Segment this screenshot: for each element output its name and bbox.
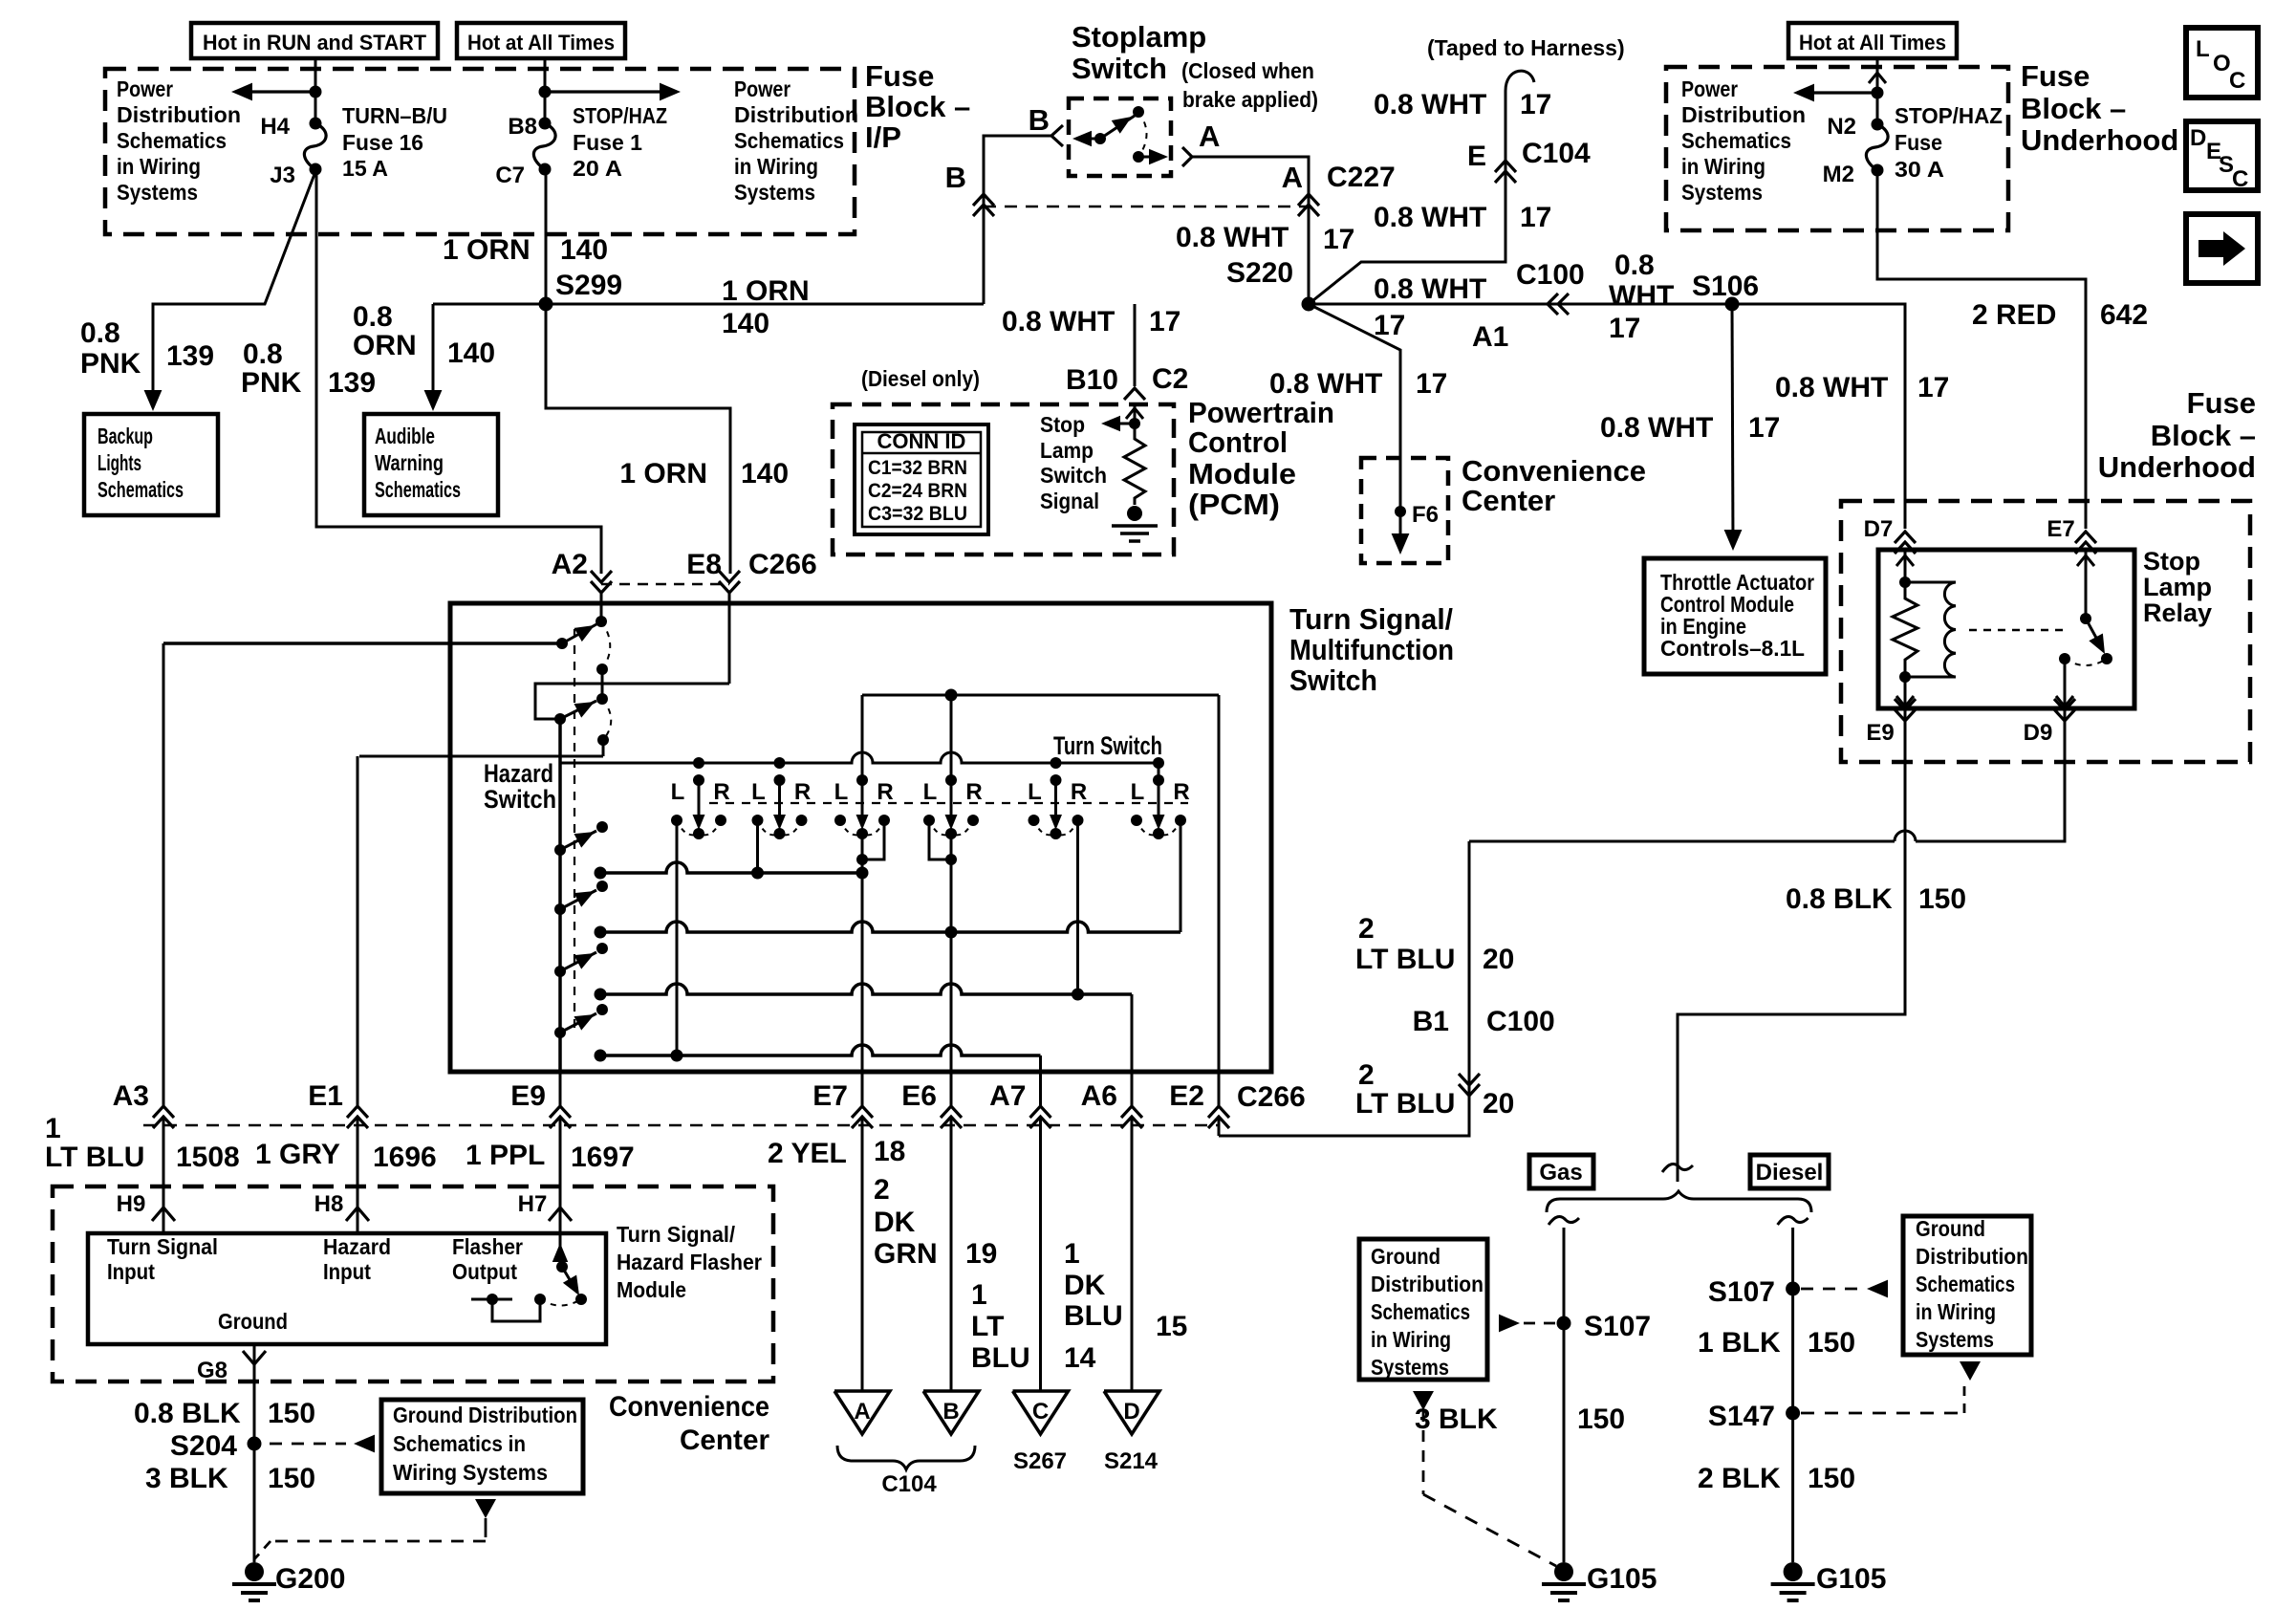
svg-text:A2: A2 (552, 549, 588, 580)
dashed box: Fuse Block I/P (105, 69, 855, 234)
svg-text:15: 15 (1156, 1311, 1187, 1342)
junction rail E6 (945, 689, 958, 702)
svg-text:Warning: Warning (375, 450, 444, 475)
svg-text:Stoplamp: Stoplamp (1072, 20, 1206, 54)
row C wire (600, 984, 1132, 994)
svg-text:G8: G8 (197, 1358, 227, 1383)
svg-text:Audible: Audible (375, 424, 435, 448)
wire: S220 branch down to PCM B10 (1134, 304, 1137, 386)
arrow below gas GDS box (1413, 1391, 1434, 1410)
wire: stoplamp A output to S220 (1192, 157, 1309, 304)
svg-text:17: 17 (1748, 412, 1780, 444)
svg-text:H4: H4 (260, 114, 290, 140)
svg-text:Schematics: Schematics (375, 477, 461, 502)
svg-text:Schematics: Schematics (734, 128, 844, 153)
arrow below right GDS box (1960, 1361, 1981, 1381)
svg-text:WHT: WHT (1609, 280, 1674, 312)
svg-text:(PCM): (PCM) (1188, 488, 1280, 521)
L2 contact drop wire (756, 820, 759, 873)
svg-text:1696: 1696 (373, 1142, 437, 1173)
dashed reference arrow S107 gas (1499, 1315, 1520, 1333)
svg-text:C7: C7 (495, 163, 525, 188)
svg-text:2 RED: 2 RED (1972, 299, 2056, 331)
svg-text:Switch: Switch (1289, 664, 1377, 697)
relay switch pivot (2080, 613, 2091, 624)
svg-text:D9: D9 (2024, 720, 2053, 746)
connector D9 chevrons (2054, 709, 2075, 721)
svg-text:Flasher: Flasher (452, 1234, 523, 1259)
dashed route S147 to GDS box (1801, 1412, 1964, 1415)
svg-text:1 PPL: 1 PPL (466, 1140, 545, 1171)
svg-text:Schematics: Schematics (97, 477, 184, 502)
svg-text:S204: S204 (170, 1430, 237, 1462)
dashed box: convenience center (F6) (1361, 458, 1448, 563)
svg-text:L: L (751, 779, 766, 805)
header box: Hot at All Times (right) (1788, 23, 1957, 58)
svg-text:LT BLU: LT BLU (1355, 944, 1455, 975)
svg-text:0.8 WHT: 0.8 WHT (1374, 202, 1486, 233)
svg-text:Turn Signal/: Turn Signal/ (1289, 602, 1453, 636)
arrow below GDS box (475, 1499, 496, 1518)
pole2 upper contact (596, 693, 608, 705)
turn switch wiper column 3 (856, 774, 868, 786)
wires E7 E6 A7 A6 down to triangles (861, 1072, 864, 1106)
connector A chevron (1182, 147, 1192, 166)
pole1 lower contact (596, 664, 608, 675)
svg-text:TURN–B/U: TURN–B/U (342, 103, 447, 128)
box: Backup Lights Schematics (84, 414, 218, 515)
fuse F1 STOP/HAZ 20A (539, 118, 552, 130)
wire: 2 LT BLU 20 B1 C100 (1219, 841, 1469, 1136)
svg-text:Turn Switch: Turn Switch (1053, 731, 1162, 760)
PCM stop lamp switch signal input (1134, 404, 1137, 424)
relay switch arm (2086, 619, 2102, 648)
svg-text:Turn Signal/: Turn Signal/ (617, 1222, 736, 1247)
svg-text:1 ORN: 1 ORN (619, 458, 707, 490)
svg-text:A3: A3 (113, 1080, 149, 1112)
svg-text:1508: 1508 (176, 1142, 240, 1173)
svg-text:PNK: PNK (80, 348, 141, 380)
svg-text:0.8: 0.8 (80, 317, 120, 349)
svg-text:C: C (2229, 68, 2245, 94)
svg-text:17: 17 (1917, 372, 1949, 403)
top rail connecting E7/E6 columns to E2 (862, 694, 1219, 697)
box: CONN ID (855, 424, 988, 534)
svg-text:A: A (1199, 120, 1220, 153)
resistor in PCM (1124, 424, 1145, 505)
R6 contact drop wire (1180, 820, 1182, 932)
svg-text:17: 17 (1609, 313, 1640, 344)
wire: E6 column through array (950, 752, 953, 780)
svg-text:N2: N2 (1827, 114, 1856, 140)
wire: E1 (357, 756, 359, 1106)
svg-text:Module: Module (1188, 457, 1296, 490)
svg-text:Powertrain: Powertrain (1188, 396, 1334, 429)
contact stub through E8 wire (601, 669, 604, 699)
splice S147 (1786, 1406, 1800, 1421)
L1 contact drop wire (676, 820, 679, 1055)
svg-text:17: 17 (1149, 306, 1180, 337)
svg-text:Hazard: Hazard (323, 1234, 391, 1259)
svg-text:(Diesel only): (Diesel only) (861, 366, 980, 391)
box: Audible Warning Schematics (364, 414, 498, 515)
svg-text:Turn Signal: Turn Signal (107, 1234, 218, 1259)
svg-text:Center: Center (680, 1425, 769, 1456)
wire: 1 ORN 140 S299 to stoplamp switch B (433, 303, 984, 306)
ground G200 (245, 1562, 264, 1581)
svg-text:Power: Power (117, 76, 173, 101)
svg-text:Multifunction: Multifunction (1289, 633, 1454, 666)
svg-text:2: 2 (1358, 913, 1375, 945)
svg-text:20: 20 (1483, 1088, 1514, 1120)
arrow to D9 (2056, 696, 2073, 707)
relay switch (2085, 550, 2088, 619)
splice S299 junction (539, 297, 553, 312)
svg-text:Fuse 16: Fuse 16 (342, 130, 423, 155)
turn switch wiper column 1 (693, 757, 704, 769)
box: turn signal / multifunction switch (450, 603, 1271, 1072)
svg-text:140: 140 (560, 234, 608, 266)
wire: 0.8 PNK 139 to backup lights (153, 169, 316, 407)
box: stop lamp relay (1878, 550, 2134, 708)
L4 elbow to E6 column (929, 820, 951, 859)
wire: branch to E C104 taped to harness (1309, 91, 1505, 304)
svg-text:STOP/HAZ: STOP/HAZ (1895, 103, 2003, 128)
wire E2 to 2 LT BLU (1218, 1072, 1221, 1106)
ground G105 diesel (1784, 1562, 1803, 1581)
pin F6 dot (1395, 506, 1406, 517)
junction on feed (1872, 87, 1884, 99)
wire: ground G8 (253, 1344, 256, 1444)
svg-text:Ground Distribution: Ground Distribution (393, 1403, 577, 1427)
svg-text:150: 150 (268, 1463, 315, 1494)
wire E2 down (1218, 695, 1221, 1072)
svg-text:Block –: Block – (865, 90, 970, 123)
svg-text:H9: H9 (117, 1191, 146, 1217)
svg-text:C227: C227 (1327, 162, 1396, 193)
dashed box: PCM diesel only (833, 404, 1174, 555)
svg-text:C100: C100 (1486, 1006, 1555, 1037)
svg-text:E6: E6 (901, 1080, 937, 1112)
box: Ground Distribution Schematics in Wiring Systems (S204) (381, 1400, 583, 1493)
turn switch inner frame top edge with bumps (559, 752, 1159, 763)
dashed box: convenience center (53, 1186, 773, 1382)
svg-text:in Wiring: in Wiring (1371, 1327, 1451, 1352)
pole1 arm (562, 624, 596, 643)
row A wire (600, 862, 862, 873)
svg-text:H7: H7 (518, 1191, 548, 1217)
svg-text:Systems: Systems (734, 180, 815, 205)
svg-text:Switch: Switch (1072, 52, 1167, 85)
svg-text:D: D (1123, 1399, 1139, 1425)
wire: main 0.8 WHT bus S220 to S106 (1309, 303, 1732, 306)
wire pole1 feed from A3 (163, 642, 562, 645)
splice S107 gas (1557, 1316, 1571, 1331)
svg-text:30 A: 30 A (1895, 157, 1944, 182)
svg-text:0.8 BLK: 0.8 BLK (1786, 883, 1893, 915)
box: Gas (1529, 1155, 1593, 1188)
box: Diesel (1750, 1155, 1829, 1188)
svg-text:L: L (671, 779, 685, 805)
svg-text:Underhood: Underhood (2098, 450, 2256, 484)
svg-text:S299: S299 (555, 270, 622, 301)
svg-text:A1: A1 (1472, 321, 1508, 353)
svg-text:150: 150 (1918, 883, 1966, 915)
svg-text:L: L (2196, 36, 2210, 62)
connector triangle D (1104, 1391, 1159, 1434)
svg-text:C266: C266 (748, 549, 817, 580)
svg-text:E2: E2 (1169, 1080, 1204, 1112)
dashed route gas GDS to G105 (1422, 1410, 1425, 1494)
svg-text:E7: E7 (812, 1080, 848, 1112)
svg-text:Center: Center (1462, 484, 1555, 517)
dashed route to G200 (485, 1528, 487, 1541)
svg-text:C3=32 BLU: C3=32 BLU (868, 503, 967, 525)
svg-text:0.8 BLK: 0.8 BLK (134, 1398, 241, 1429)
connector E6 (941, 1106, 962, 1118)
switch pivot (1094, 133, 1106, 144)
svg-text:Schematics: Schematics (1916, 1272, 2015, 1296)
svg-text:Block –: Block – (2021, 92, 2126, 125)
svg-text:STOP/HAZ: STOP/HAZ (573, 103, 667, 128)
svg-text:B1: B1 (1413, 1006, 1449, 1037)
dashed reference arrow S107 diesel (1801, 1288, 1858, 1291)
hazard common bus / E9 line (558, 719, 562, 1072)
svg-text:0.8: 0.8 (1614, 250, 1655, 281)
junction on RUN feed (310, 86, 322, 98)
pole2 arm (560, 701, 596, 719)
svg-text:0.8 WHT: 0.8 WHT (1600, 412, 1713, 444)
wire to power distribution (left arrow) (237, 90, 315, 93)
svg-text:Distribution: Distribution (1371, 1272, 1484, 1296)
svg-text:S214: S214 (1104, 1448, 1159, 1474)
flasher pivot (556, 1261, 568, 1273)
R5 contact drop wire (1076, 820, 1079, 994)
svg-text:Systems: Systems (1916, 1327, 1994, 1352)
connector C227 chevrons (1298, 194, 1319, 206)
svg-text:1: 1 (971, 1279, 987, 1311)
svg-text:DK: DK (874, 1207, 916, 1238)
svg-text:C: C (1032, 1399, 1049, 1425)
svg-text:15 A: 15 A (342, 156, 388, 181)
arrowhead into conv center (1392, 533, 1410, 555)
svg-text:140: 140 (722, 308, 769, 339)
wire: E7 column through array (861, 752, 864, 780)
svg-text:Diesel: Diesel (1756, 1160, 1824, 1186)
svg-text:Distribution: Distribution (734, 102, 858, 127)
svg-text:E9: E9 (510, 1080, 546, 1112)
svg-text:C100: C100 (1516, 259, 1585, 291)
svg-text:(Closed when: (Closed when (1181, 58, 1314, 83)
svg-text:Fuse 1: Fuse 1 (573, 130, 642, 155)
upper contact (1133, 106, 1144, 118)
connector C100 chevrons on bus (1548, 294, 1558, 315)
wire E8 jog to pole2 (535, 684, 729, 719)
svg-text:Input: Input (323, 1259, 371, 1284)
wire E1 feed (359, 755, 603, 758)
svg-text:Distribution: Distribution (1681, 102, 1806, 127)
svg-text:R: R (965, 779, 982, 805)
svg-text:C2=24 BRN: C2=24 BRN (868, 480, 967, 502)
ground inside PCM (1127, 506, 1142, 521)
splice S220 junction (1302, 297, 1316, 312)
svg-text:Fuse: Fuse (865, 59, 934, 93)
svg-text:L: L (1028, 779, 1042, 805)
wire: A3 (162, 643, 165, 1106)
svg-text:0.8 WHT: 0.8 WHT (1176, 222, 1289, 253)
svg-text:Schematics: Schematics (1681, 128, 1791, 153)
box: Ground Distribution Schematics (right) (1903, 1216, 2031, 1355)
wire from Hot at All Times box to fuse 1 (544, 58, 547, 123)
turn switch wiper column 4 (945, 774, 957, 786)
svg-text:D7: D7 (1864, 516, 1894, 542)
wire to power distribution (right arrow) (545, 90, 675, 93)
turn switch wiper column 6 (1153, 757, 1164, 769)
svg-text:S220: S220 (1226, 257, 1293, 289)
svg-text:17: 17 (1323, 224, 1354, 255)
connector E9 (550, 1106, 571, 1118)
connector D7 chevrons (1895, 532, 1916, 543)
dashed connector line C266 bottom (143, 1124, 1219, 1127)
switch arm (1100, 116, 1135, 139)
svg-text:Ground: Ground (1916, 1216, 1985, 1241)
svg-text:L: L (834, 779, 849, 805)
svg-text:in Wiring: in Wiring (117, 154, 201, 179)
svg-text:17: 17 (1520, 89, 1551, 120)
svg-text:E8: E8 (686, 549, 722, 580)
wire: 0.8 PNK 139 down from J3 (316, 169, 601, 574)
hazard pole 2 (554, 903, 566, 915)
flasher dashed arc (540, 1299, 581, 1306)
svg-text:B8: B8 (508, 114, 537, 140)
pole1 upper contact (596, 616, 607, 627)
dashed box: fuse block underhood top (1666, 67, 2008, 230)
svg-text:0.8: 0.8 (353, 301, 393, 333)
arrowhead into audible warning (424, 390, 443, 411)
svg-text:LT BLU: LT BLU (1355, 1088, 1455, 1120)
pole1 dashed arc (601, 621, 610, 669)
svg-text:BLU: BLU (971, 1342, 1030, 1374)
diesel branch wire (1778, 1216, 1809, 1225)
svg-text:in Wiring: in Wiring (734, 154, 818, 179)
row B wire (600, 922, 1180, 932)
svg-text:Input: Input (107, 1259, 155, 1284)
svg-text:C104: C104 (1522, 138, 1591, 169)
row D wire (600, 1045, 1041, 1055)
svg-text:1 GRY: 1 GRY (255, 1139, 340, 1170)
box: Throttle Actuator Control Module (1644, 558, 1826, 674)
brace C104 under A and B (837, 1446, 975, 1469)
box: arrow symbol (2186, 214, 2258, 283)
svg-text:in Wiring: in Wiring (1681, 154, 1765, 179)
svg-text:R: R (877, 779, 893, 805)
fuse F16 TURN-B/U 15A (310, 118, 322, 130)
lower contact A (1133, 151, 1144, 163)
arrowhead left (1793, 84, 1814, 102)
svg-text:O: O (2213, 51, 2231, 76)
svg-text:B10: B10 (1066, 364, 1118, 396)
box: turn signal hazard flasher module (88, 1233, 606, 1344)
ground G105 gas (1554, 1562, 1573, 1581)
svg-text:1: 1 (1064, 1238, 1080, 1270)
svg-text:GRN: GRN (874, 1238, 938, 1270)
svg-text:Underhood: Underhood (2021, 123, 2178, 157)
flasher switch (559, 1233, 562, 1267)
svg-text:Hot at All Times: Hot at All Times (467, 31, 615, 54)
svg-text:Fuse: Fuse (1895, 130, 1942, 155)
svg-text:1: 1 (45, 1113, 61, 1144)
svg-text:Hot in RUN and START: Hot in RUN and START (203, 31, 427, 54)
svg-text:Stop: Stop (1040, 412, 1085, 437)
svg-text:A7: A7 (989, 1080, 1026, 1112)
svg-text:140: 140 (741, 458, 789, 490)
svg-text:17: 17 (1374, 310, 1405, 341)
connector E7 chevrons (2075, 532, 2096, 543)
wire: 2 RED 642 from fuse to E7 relay (1877, 170, 2086, 529)
svg-text:1 ORN: 1 ORN (443, 234, 531, 266)
arrow to A pin (1149, 149, 1168, 164)
relay output contact (2059, 653, 2070, 664)
svg-text:150: 150 (1808, 1463, 1855, 1494)
bump D9 wire over E9 wire (1895, 831, 1916, 841)
svg-text:Fuse: Fuse (2021, 59, 2090, 93)
svg-text:Lamp: Lamp (1040, 438, 1094, 463)
svg-text:14: 14 (1064, 1342, 1096, 1374)
box: DESC symbol (2186, 121, 2258, 190)
svg-text:C2: C2 (1152, 363, 1188, 395)
wire: stoplamp switch B feed (984, 136, 1051, 304)
mechanical link dashed line (574, 629, 575, 1033)
wire to G200 (253, 1444, 256, 1562)
svg-text:Hazard: Hazard (484, 759, 553, 788)
svg-text:S267: S267 (1013, 1448, 1067, 1474)
wire: E9 flasher (559, 1072, 562, 1106)
svg-text:DK: DK (1064, 1270, 1106, 1301)
wire to power distribution left (1799, 91, 1877, 94)
svg-text:L: L (923, 779, 938, 805)
svg-text:D: D (2190, 125, 2206, 151)
svg-text:Convenience: Convenience (609, 1391, 769, 1423)
arrowhead left (231, 83, 252, 101)
svg-text:2: 2 (874, 1174, 890, 1206)
svg-text:E1: E1 (308, 1080, 343, 1112)
svg-text:Lamp: Lamp (2143, 573, 2212, 601)
R3 elbow to E7 column (862, 820, 884, 859)
svg-text:Ground: Ground (1371, 1244, 1440, 1269)
E6 column to rail (950, 695, 953, 752)
fuse STOP/HAZ 30A (1872, 119, 1884, 131)
svg-text:Gas: Gas (1539, 1160, 1582, 1186)
wire: 1 ORN 140 from fuse1 to S299 (545, 169, 548, 304)
svg-text:S106: S106 (1692, 271, 1759, 302)
svg-text:1697: 1697 (571, 1142, 635, 1173)
wire A2 into switch (600, 593, 603, 621)
connector B chevrons at C227 line (973, 194, 994, 206)
svg-text:19: 19 (965, 1238, 997, 1270)
arrowhead right (660, 83, 681, 101)
svg-text:Convenience: Convenience (1462, 454, 1646, 488)
svg-text:J3: J3 (270, 163, 295, 188)
svg-text:642: 642 (2100, 299, 2148, 331)
svg-text:Stop: Stop (2143, 547, 2200, 576)
svg-text:Distribution: Distribution (1916, 1244, 2028, 1269)
connector A3 (153, 1106, 174, 1118)
svg-text:E: E (1467, 141, 1486, 172)
svg-text:S147: S147 (1708, 1401, 1775, 1432)
svg-text:G105: G105 (1587, 1563, 1657, 1595)
svg-text:0.8 WHT: 0.8 WHT (1374, 89, 1486, 120)
svg-text:Schematics in: Schematics in (393, 1431, 526, 1456)
